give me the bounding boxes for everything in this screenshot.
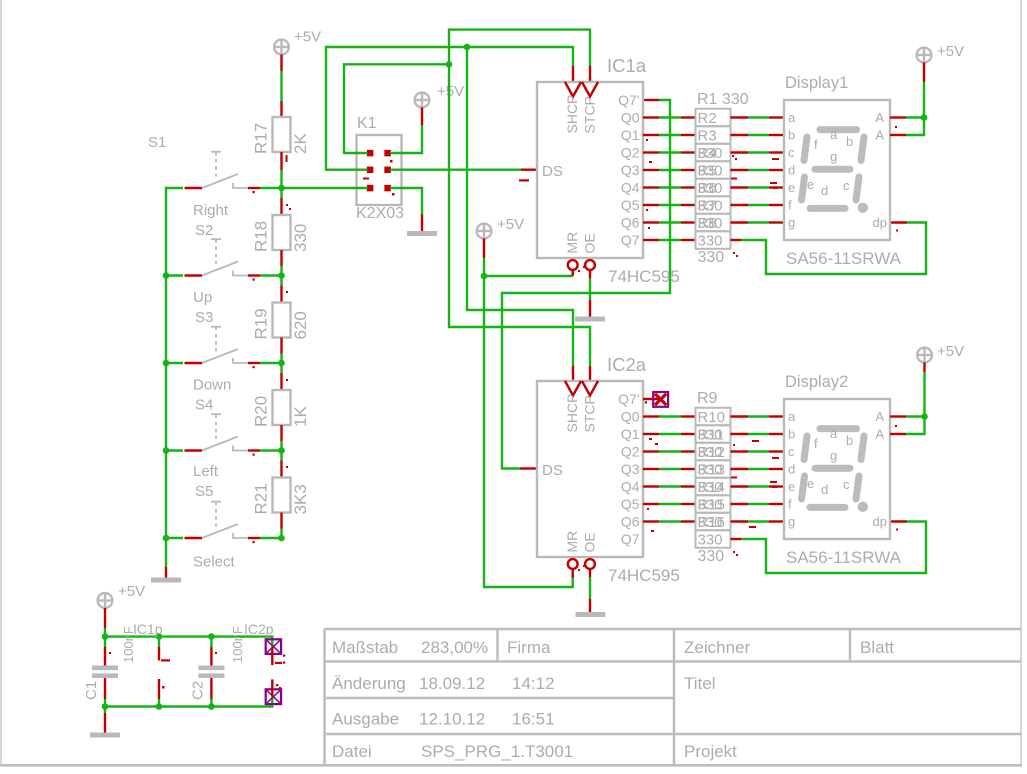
- open-pin flag (IC2a Q7'): [645, 392, 668, 407]
- svg-text:OE: OE: [582, 532, 598, 552]
- wire R21 to node S5: [280, 513, 282, 529]
- ground (OE1): [575, 317, 605, 322]
- svg-text:A: A: [875, 427, 884, 442]
- svg-text:STCP: STCP: [582, 395, 598, 432]
- svg-text:OE: OE: [582, 233, 598, 253]
- svg-text:S3: S3: [195, 309, 213, 326]
- svg-text:Q0: Q0: [621, 409, 640, 425]
- svg-text:Q6: Q6: [621, 514, 640, 530]
- svg-text:Zeichner: Zeichner: [684, 638, 750, 657]
- svg-text:d: d: [821, 183, 828, 198]
- wire K1 pin R3 to ground: [390, 188, 422, 215]
- ground (K1): [407, 231, 437, 236]
- wire OE2 to ground: [589, 569, 591, 577]
- svg-text:f: f: [814, 137, 818, 152]
- svg-text:Q4: Q4: [621, 479, 640, 495]
- svg-text:R9: R9: [697, 390, 718, 407]
- svg-text:a: a: [830, 127, 838, 142]
- svg-text:SA56-11SRWA: SA56-11SRWA: [786, 548, 902, 567]
- svg-text:Up: Up: [193, 289, 212, 306]
- ground (OE2): [576, 612, 606, 617]
- svg-text:C2: C2: [190, 681, 207, 700]
- net Q7' cascade wire (IC1a Q7' to IC2a DS): [502, 100, 670, 469]
- net STCP wire (IC1a STCP / K1 L1 / IC2a STCP): [344, 30, 590, 381]
- resistor network R1-R8 330: [696, 91, 749, 266]
- switch S2: [166, 202, 282, 281]
- switch S5: [166, 463, 282, 543]
- display Display2 SA56-11SRWA: [784, 373, 902, 567]
- svg-text:Q7': Q7': [618, 391, 639, 407]
- svg-text:Q7: Q7: [621, 232, 640, 248]
- svg-text:Right: Right: [193, 202, 229, 219]
- svg-text:Q5: Q5: [621, 496, 640, 512]
- wire OE1 to ground: [589, 270, 591, 278]
- svg-text:A: A: [875, 128, 884, 143]
- svg-text:DS: DS: [542, 462, 563, 479]
- svg-text:Display2: Display2: [785, 373, 848, 391]
- svg-text:b: b: [846, 134, 853, 149]
- +5V supply P4 (Display1): [917, 43, 965, 62]
- wire R18 to node S2: [280, 250, 282, 266]
- wire +5V to MR of IC1a and IC2a: [481, 238, 573, 587]
- svg-text:Select: Select: [193, 554, 236, 571]
- svg-text:MR: MR: [564, 232, 580, 254]
- switch S1: [148, 134, 282, 193]
- resistor R17: [252, 117, 311, 162]
- svg-text:Q2: Q2: [621, 145, 640, 161]
- svg-text:DS: DS: [542, 163, 563, 180]
- svg-text:+5V: +5V: [937, 343, 964, 360]
- svg-text:R3: R3: [698, 128, 717, 145]
- wires R9-R15 to Display2 a-g: [731, 417, 785, 529]
- svg-text:g: g: [830, 448, 837, 463]
- svg-text:330: 330: [291, 224, 310, 252]
- svg-text:330: 330: [698, 163, 723, 180]
- svg-text:SA56-11SRWA: SA56-11SRWA: [786, 249, 902, 268]
- svg-text:Q7': Q7': [618, 92, 639, 108]
- svg-text:a: a: [830, 426, 838, 441]
- svg-text:Projekt: Projekt: [684, 742, 737, 761]
- wire node to R20: [280, 363, 282, 373]
- svg-text:16:51: 16:51: [512, 710, 555, 729]
- svg-text:330: 330: [698, 180, 723, 197]
- svg-text:620: 620: [291, 311, 310, 339]
- resistor R20: [252, 390, 311, 427]
- svg-text:SHCP: SHCP: [564, 95, 580, 134]
- title block: [325, 629, 1022, 765]
- svg-text:330: 330: [698, 462, 723, 479]
- svg-text:SPS_PRG_1.T3001: SPS_PRG_1.T3001: [421, 742, 573, 761]
- wire node to R19: [280, 276, 282, 286]
- svg-text:b: b: [846, 433, 853, 448]
- svg-text:14:12: 14:12: [512, 674, 555, 693]
- resistor R18: [252, 215, 311, 252]
- wires R1-R7 to Display1 a-g: [731, 118, 785, 223]
- svg-text:IC2a: IC2a: [607, 354, 647, 375]
- svg-text:Q4: Q4: [621, 180, 640, 196]
- bottom rail wire: [105, 696, 272, 707]
- ground (bus): [151, 578, 181, 583]
- capacitor C1 100nF: [83, 626, 136, 706]
- svg-text:K2X03: K2X03: [356, 205, 404, 222]
- display Display1 SA56-11SRWA: [784, 74, 902, 268]
- resistor network R9-R16 330: [696, 390, 739, 565]
- svg-text:MR: MR: [564, 531, 580, 553]
- svg-text:f: f: [788, 497, 792, 512]
- svg-text:74HC595: 74HC595: [608, 566, 680, 585]
- svg-text:+5V: +5V: [937, 43, 964, 60]
- svg-text:e: e: [788, 180, 795, 195]
- wire +5V to R17: [280, 54, 282, 71]
- connector K1: [356, 115, 404, 222]
- svg-text:12.10.12: 12.10.12: [419, 710, 485, 729]
- svg-text:e: e: [807, 476, 814, 491]
- svg-text:100nF: 100nF: [230, 626, 245, 663]
- wire R19 to node S3: [280, 338, 282, 354]
- wire R20 to node S4: [280, 425, 282, 441]
- svg-text:Q2: Q2: [621, 444, 640, 460]
- svg-text:R10: R10: [698, 409, 726, 426]
- svg-text:IC1p: IC1p: [133, 621, 163, 637]
- +5V supply P5 (Display2): [917, 343, 964, 362]
- switch S4: [166, 377, 282, 456]
- svg-text:R18: R18: [252, 221, 271, 252]
- net SHCP wire (IC1a SHCP / K1 L2 / IC2a SHCP): [326, 44, 573, 381]
- svg-text:S2: S2: [195, 222, 213, 239]
- svg-text:330: 330: [698, 198, 723, 215]
- svg-text:g: g: [788, 514, 795, 529]
- svg-text:c: c: [788, 444, 795, 459]
- wires IC2a Q0-Q6 to R9-R15: [643, 417, 696, 533]
- svg-text:R2: R2: [698, 110, 717, 127]
- wires IC1a Q0-Q6 to R1-R7: [643, 118, 696, 241]
- svg-text:IC2p: IC2p: [244, 621, 274, 637]
- svg-text:Q3: Q3: [621, 162, 640, 178]
- svg-text:Firma: Firma: [507, 638, 551, 657]
- svg-text:330: 330: [698, 497, 723, 514]
- svg-text:b: b: [788, 128, 795, 143]
- svg-text:330: 330: [698, 532, 723, 549]
- svg-text:b: b: [788, 427, 795, 442]
- svg-text:Q7: Q7: [621, 531, 640, 547]
- svg-text:Q3: Q3: [621, 461, 640, 477]
- svg-text:Display1: Display1: [785, 74, 848, 92]
- wire R16 to Display2 dp: [731, 522, 927, 574]
- svg-text:g: g: [830, 149, 837, 164]
- svg-text:Q1: Q1: [621, 127, 640, 143]
- power part IC1p pins: [133, 621, 170, 707]
- switch S3: [166, 289, 282, 368]
- svg-text:Blatt: Blatt: [860, 638, 894, 657]
- svg-text:330: 330: [698, 233, 723, 250]
- svg-text:+5V: +5V: [497, 216, 524, 233]
- svg-text:c: c: [843, 178, 850, 193]
- +5V supply P2 (K1): [415, 83, 465, 107]
- svg-text:Ausgabe: Ausgabe: [332, 710, 399, 729]
- svg-text:3K3: 3K3: [291, 484, 310, 514]
- svg-text:Q0: Q0: [621, 110, 640, 126]
- svg-text:330: 330: [698, 514, 723, 531]
- svg-text:330: 330: [698, 145, 723, 162]
- svg-text:330: 330: [698, 427, 723, 444]
- svg-text:d: d: [788, 462, 795, 477]
- svg-text:330: 330: [698, 444, 723, 461]
- svg-text:STCP: STCP: [582, 96, 598, 133]
- node S1 junction: [278, 185, 285, 192]
- svg-text:Left: Left: [193, 463, 219, 480]
- left bus wire: [166, 188, 183, 567]
- svg-text:S5: S5: [195, 483, 213, 500]
- svg-text:S1: S1: [148, 134, 166, 151]
- svg-text:2K: 2K: [291, 133, 310, 154]
- svg-text:Datei: Datei: [332, 742, 372, 761]
- svg-text:1K: 1K: [291, 406, 310, 427]
- svg-text:a: a: [788, 409, 796, 424]
- svg-text:d: d: [788, 163, 795, 178]
- svg-text:Titel: Titel: [684, 674, 716, 693]
- svg-text:Q5: Q5: [621, 197, 640, 213]
- svg-text:c: c: [843, 477, 850, 492]
- svg-text:+5V: +5V: [118, 583, 145, 600]
- svg-text:IC1a: IC1a: [607, 55, 647, 76]
- svg-text:R21: R21: [252, 483, 271, 514]
- svg-text:SHCP: SHCP: [564, 394, 580, 433]
- wire K1 pin R1 to +5V: [421, 107, 423, 125]
- wire R8 to Display1 dp: [731, 223, 927, 275]
- resistor R21: [252, 478, 311, 515]
- svg-text:Q6: Q6: [621, 215, 640, 231]
- +5V supply P3 (MR nets): [477, 216, 525, 238]
- svg-text:d: d: [821, 482, 828, 497]
- +5V supply P6 (decoupling): [98, 583, 146, 608]
- svg-text:e: e: [788, 479, 795, 494]
- svg-text:dp: dp: [873, 514, 887, 529]
- svg-text:f: f: [788, 198, 792, 213]
- svg-text:A: A: [875, 409, 884, 424]
- svg-text:R19: R19: [252, 308, 271, 339]
- svg-text:C1: C1: [83, 681, 100, 700]
- svg-text:330: 330: [698, 479, 723, 496]
- ground (C1): [90, 733, 120, 738]
- svg-text:dp: dp: [873, 215, 887, 230]
- wire C1 to ground: [104, 707, 106, 714]
- svg-text:e: e: [807, 177, 814, 192]
- svg-text:Änderung: Änderung: [332, 674, 406, 693]
- svg-text:18.09.12: 18.09.12: [419, 674, 485, 693]
- svg-text:+5V: +5V: [294, 29, 321, 46]
- top rail wire: [105, 637, 272, 648]
- svg-text:A: A: [875, 110, 884, 125]
- svg-text:330: 330: [698, 548, 725, 565]
- wire Display1 anode pins to +5V: [890, 62, 927, 135]
- wire R17 to node S1: [280, 152, 282, 170]
- wire IC2a Q7' to open flag: [643, 398, 661, 400]
- IC U1: IC1a 74HC595: [537, 55, 680, 286]
- svg-text:R20: R20: [252, 396, 271, 427]
- +5V supply P1 (resistor chain top): [274, 29, 321, 55]
- svg-text:+5V: +5V: [437, 83, 464, 100]
- net DS wire (K1 R2 to IC1a DS): [390, 170, 536, 182]
- wire node to R21: [280, 451, 282, 461]
- IC U2: IC2a 74HC595: [537, 354, 680, 585]
- svg-text:283,00%: 283,00%: [421, 638, 488, 657]
- svg-text:R1 330: R1 330: [697, 91, 749, 108]
- wire node to R18: [280, 188, 282, 198]
- wire Display2 anode pins to +5V: [890, 362, 928, 434]
- wire +5V to top rail: [104, 608, 106, 628]
- svg-text:74HC595: 74HC595: [608, 267, 680, 286]
- svg-text:330: 330: [698, 249, 725, 266]
- svg-text:f: f: [814, 436, 818, 451]
- wire bus to ground: [165, 567, 167, 578]
- svg-text:g: g: [788, 215, 795, 230]
- svg-text:Maßstab: Maßstab: [332, 638, 398, 657]
- svg-text:Q1: Q1: [621, 426, 640, 442]
- svg-text:K1: K1: [357, 115, 377, 132]
- svg-text:R17: R17: [252, 123, 271, 154]
- svg-text:Down: Down: [193, 377, 231, 394]
- resistor R19: [252, 303, 311, 340]
- svg-text:S4: S4: [195, 397, 213, 414]
- wire node S1 to K1 pin L3: [282, 187, 368, 189]
- power part IC2p pins: [244, 621, 285, 704]
- svg-text:330: 330: [698, 215, 723, 232]
- svg-text:a: a: [788, 110, 796, 125]
- capacitor C2 100nF: [190, 626, 246, 706]
- svg-text:c: c: [788, 145, 795, 160]
